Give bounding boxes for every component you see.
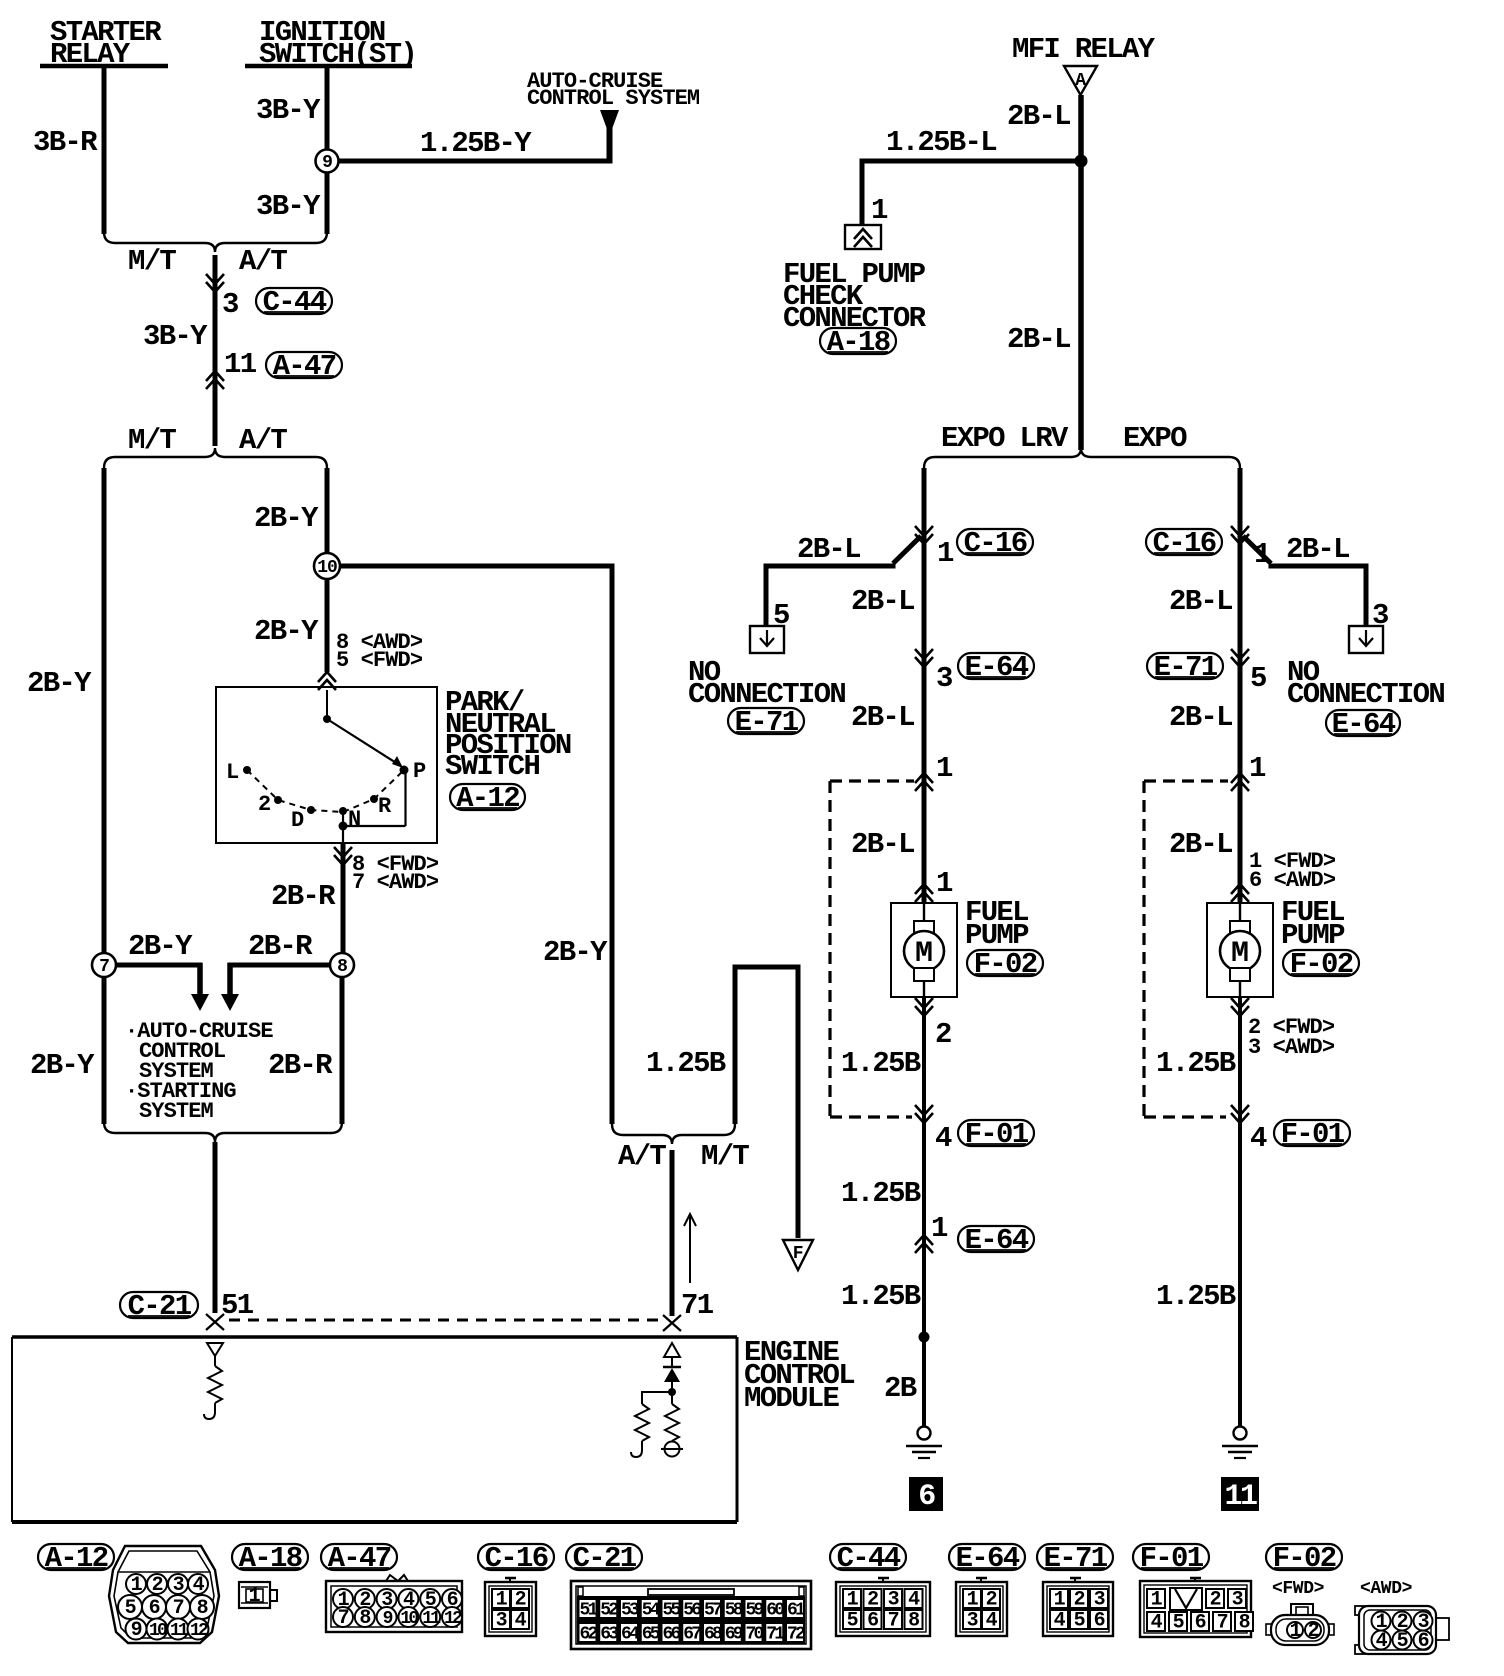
wire 2B-L no-connection stub (left)	[766, 533, 921, 626]
pins 2(FWD) 3(AWD) of F-02 (right)	[1231, 998, 1335, 1060]
svg-text:M/T: M/T	[701, 1140, 749, 1173]
svg-text:1.25B-L: 1.25B-L	[886, 126, 996, 159]
pin 51	[206, 1289, 254, 1330]
svg-text:F-02: F-02	[1273, 1542, 1336, 1575]
svg-text:65: 65	[642, 1625, 660, 1645]
label M/T A/T (lower)	[128, 424, 287, 457]
wire to ECM pin 51	[213, 1142, 218, 1313]
resistor left leg (ECM)	[631, 1391, 672, 1457]
node junction under pin 71	[668, 1388, 676, 1396]
connector F-01 detail	[1140, 1578, 1253, 1637]
connector E-64 detail	[956, 1578, 1007, 1636]
svg-text:8: 8	[908, 1610, 919, 1633]
wire 2B-Y to ECM-71 branch	[340, 564, 615, 1124]
svg-text:F: F	[793, 1244, 803, 1264]
label EXPO LRV / EXPO	[941, 422, 1187, 455]
junction 10	[314, 553, 340, 579]
svg-text:CONNECTION: CONNECTION	[1287, 678, 1444, 711]
wire 2B-Y left M/T branch	[27, 468, 104, 953]
svg-text:60: 60	[766, 1601, 784, 1621]
pin 3 of E-64 (left)	[915, 649, 952, 695]
brace M/T-A/T join (top)	[104, 232, 327, 252]
svg-text:4: 4	[1376, 1630, 1388, 1653]
ground (right)	[1222, 1427, 1258, 1459]
connector label F-02 (left)	[967, 948, 1043, 981]
no-connection terminal E-64 (right)	[1349, 626, 1383, 653]
svg-text:67: 67	[683, 1625, 701, 1645]
svg-text:1: 1	[936, 867, 953, 900]
connector label A-12 (legend)	[38, 1542, 114, 1575]
connector label E-71 (left NC)	[728, 706, 804, 739]
svg-text:3: 3	[173, 1574, 184, 1597]
svg-text:1: 1	[931, 1212, 948, 1245]
svg-text:2: 2	[1210, 1589, 1221, 1612]
svg-text:58: 58	[725, 1601, 743, 1621]
svg-text:E-64: E-64	[956, 1542, 1020, 1575]
connector label E-64 (legend)	[949, 1542, 1025, 1575]
svg-text:A/T: A/T	[239, 245, 287, 278]
wire 1.25B label (left mid)	[841, 1177, 921, 1210]
wire 2B-Y lower left	[30, 977, 104, 1124]
connector label A-18	[820, 326, 896, 359]
svg-text:5 <FWD>: 5 <FWD>	[336, 648, 423, 673]
wire 2B-Y into switch	[254, 579, 327, 672]
svg-text:3: 3	[1094, 1589, 1105, 1612]
wire 2B-L mid (left)	[851, 701, 914, 734]
wire 2B-L into pump (left)	[851, 828, 914, 861]
connector label A-47 (legend)	[321, 1542, 397, 1575]
connector C-21 detail	[571, 1581, 811, 1649]
svg-text:A-18: A-18	[827, 326, 890, 359]
svg-text:3: 3	[1232, 1589, 1243, 1612]
svg-text:A-12: A-12	[456, 782, 519, 815]
svg-text:7: 7	[99, 957, 109, 977]
svg-text:1: 1	[1249, 752, 1266, 785]
pins 1(FWD) 6(AWD) of F-02 (right)	[1231, 849, 1336, 902]
svg-text:10: 10	[400, 1609, 418, 1629]
svg-text:11: 11	[1224, 1480, 1257, 1514]
svg-text:6: 6	[149, 1597, 160, 1620]
svg-text:E-64: E-64	[965, 651, 1029, 684]
pin 5 no-connection (left)	[773, 599, 789, 632]
svg-text:2B-R: 2B-R	[268, 1049, 333, 1082]
svg-text:71: 71	[681, 1289, 714, 1322]
pin 71	[663, 1289, 714, 1331]
svg-text:2: 2	[986, 1589, 997, 1612]
svg-text:1: 1	[871, 194, 888, 227]
connector label A-12 (switch)	[450, 782, 525, 815]
wire 1.25B-Y to auto-cruise	[339, 126, 612, 164]
svg-text:M: M	[915, 937, 933, 971]
wire 3B-Y ignition upper	[256, 66, 327, 150]
pins 8(AWD) 5(FWD) of A-12	[318, 630, 423, 690]
svg-text:F-01: F-01	[1281, 1118, 1345, 1151]
svg-text:2B-L: 2B-L	[851, 828, 914, 861]
svg-text:2B-Y: 2B-Y	[254, 615, 319, 648]
connector label C-16 (left)	[957, 527, 1033, 560]
svg-text:7: 7	[338, 1607, 349, 1630]
off-page connector F	[783, 1240, 813, 1270]
wire 3B-Y ignition lower	[256, 172, 327, 234]
engine control module box	[12, 1337, 737, 1522]
pin 1 of E-64 ground side (left)	[915, 1212, 948, 1253]
arrow into auto-cruise/starting (left)	[191, 994, 209, 1011]
svg-text:A-18: A-18	[239, 1542, 302, 1575]
svg-text:8: 8	[197, 1597, 208, 1620]
svg-text:11: 11	[224, 348, 257, 381]
svg-text:2B-Y: 2B-Y	[128, 930, 193, 963]
svg-text:2B-L: 2B-L	[1286, 533, 1349, 566]
svg-text:A: A	[1075, 71, 1086, 91]
svg-text:E-71: E-71	[1044, 1542, 1108, 1575]
svg-text:5: 5	[1074, 1610, 1085, 1633]
wire 1.25B below pump (right)	[1156, 997, 1240, 1426]
wire 3B-R from starter relay	[33, 66, 104, 234]
wire 1.25B label (left low)	[841, 1280, 921, 1313]
svg-text:2B-L: 2B-L	[851, 701, 914, 734]
connector label C-21 (legend)	[566, 1542, 642, 1575]
svg-text:1: 1	[1290, 1620, 1302, 1643]
svg-text:7: 7	[888, 1610, 899, 1633]
connector A-18 detail	[239, 1582, 277, 1608]
connector label F-01 (left)	[958, 1118, 1034, 1151]
ground (left)	[906, 1427, 942, 1459]
svg-text:6: 6	[1195, 1612, 1206, 1635]
svg-text:6: 6	[1094, 1610, 1105, 1633]
svg-text:4: 4	[1250, 1122, 1267, 1155]
svg-text:4: 4	[1054, 1610, 1066, 1633]
MFI relay	[1012, 33, 1156, 95]
label FUEL PUMP (right)	[1281, 896, 1345, 952]
flow arrow up	[684, 1214, 696, 1283]
svg-text:2: 2	[1074, 1589, 1085, 1612]
wire to ECM pin 71	[670, 1150, 675, 1316]
connector E-71 detail	[1043, 1578, 1113, 1636]
svg-text:5: 5	[847, 1610, 858, 1633]
svg-text:4: 4	[986, 1610, 998, 1633]
wire 2B-Y A/T branch upper	[254, 468, 327, 553]
no-connection terminal E-71 (left)	[750, 626, 784, 653]
dashed boundary F-02 (left)	[830, 781, 914, 1117]
pin 1 of F-02 (left)	[915, 867, 953, 902]
label AWD (legend)	[1360, 1579, 1412, 1599]
connector label F-02 (right)	[1283, 948, 1359, 981]
svg-text:63: 63	[600, 1625, 618, 1645]
svg-text:E-64: E-64	[1332, 708, 1396, 741]
svg-text:3B-R: 3B-R	[33, 126, 98, 159]
svg-text:2B-L: 2B-L	[851, 585, 914, 618]
label PARK/NEUTRAL POSITION SWITCH	[445, 686, 571, 783]
svg-text:C-44: C-44	[263, 286, 327, 319]
svg-text:1.25B: 1.25B	[1156, 1280, 1236, 1313]
brace A/T-M/T split into pin 71	[612, 1124, 735, 1144]
ground reference 11	[1221, 1477, 1259, 1514]
svg-text:12: 12	[190, 1621, 208, 1641]
svg-text:3: 3	[967, 1610, 978, 1633]
svg-text:1.25B: 1.25B	[646, 1047, 726, 1080]
svg-text:7: 7	[173, 1597, 184, 1620]
svg-text:EXPO LRV: EXPO LRV	[941, 422, 1069, 455]
pin 1 fuel pump check connector	[871, 194, 888, 227]
svg-text:M: M	[1231, 937, 1249, 971]
svg-text:3B-Y: 3B-Y	[256, 94, 321, 127]
wire 2B-L expo upper	[1238, 468, 1243, 903]
pin 1 of C-16 (right)	[1231, 526, 1271, 571]
connector pin 11 of A-47	[206, 348, 257, 389]
connector F-02 AWD detail	[1355, 1606, 1449, 1654]
svg-text:10: 10	[149, 1621, 167, 1641]
pin 4 of F-01 (left)	[915, 1105, 952, 1155]
svg-text:57: 57	[704, 1601, 722, 1621]
brace M/T-A/T split (second)	[104, 448, 327, 468]
svg-text:2B-Y: 2B-Y	[30, 1049, 95, 1082]
label NO CONNECTION (left)	[688, 656, 845, 711]
svg-text:5: 5	[125, 1597, 136, 1620]
svg-text:2: 2	[867, 1589, 878, 1612]
connector label C-21 (ECM)	[120, 1290, 198, 1323]
wire 2B-R branch from junction 8	[228, 930, 331, 996]
arrow to auto-cruise control system	[600, 110, 619, 129]
wire 2B-L no-connection stub (right)	[1169, 533, 1366, 626]
arrow into auto-cruise/starting (right)	[221, 994, 239, 1011]
svg-text:2B-Y: 2B-Y	[254, 502, 319, 535]
svg-text:SWITCH: SWITCH	[445, 750, 540, 783]
svg-text:3B-Y: 3B-Y	[143, 320, 208, 353]
connector label C-16 (right)	[1146, 527, 1222, 560]
svg-text:A-12: A-12	[45, 1542, 108, 1575]
ground reference 6	[909, 1477, 943, 1514]
connector C-16 detail	[485, 1578, 536, 1636]
pin 5 of E-71 (right)	[1231, 649, 1266, 695]
svg-text:12: 12	[444, 1609, 462, 1629]
svg-text:72: 72	[787, 1625, 805, 1645]
svg-text:59: 59	[745, 1601, 763, 1621]
svg-text:3B-Y: 3B-Y	[256, 190, 321, 223]
label M/T A/T (upper)	[128, 245, 287, 278]
svg-text:6: 6	[1418, 1630, 1429, 1653]
svg-text:1: 1	[936, 752, 953, 785]
ECM output under pin 71	[664, 1343, 680, 1366]
connector label E-64 (left lower)	[958, 1224, 1034, 1257]
connector label C-44	[256, 286, 332, 319]
svg-text:3: 3	[936, 662, 952, 695]
svg-text:4: 4	[1151, 1612, 1163, 1635]
svg-text:6 <AWD>: 6 <AWD>	[1249, 868, 1336, 893]
junction dot 2B (left)	[919, 1332, 930, 1343]
svg-text:A-47: A-47	[328, 1542, 391, 1575]
svg-text:2: 2	[515, 1589, 526, 1612]
label FWD (legend)	[1272, 1579, 1324, 1599]
label ENGINE CONTROL MODULE	[744, 1336, 854, 1415]
connector label E-71 (legend)	[1037, 1542, 1113, 1575]
svg-text:F-01: F-01	[1140, 1542, 1204, 1575]
svg-text:M/T: M/T	[128, 245, 176, 278]
svg-text:3: 3	[496, 1610, 507, 1633]
svg-text:F-02: F-02	[974, 948, 1037, 981]
svg-text:69: 69	[725, 1625, 743, 1645]
svg-text:A/T: A/T	[618, 1140, 666, 1173]
svg-text:1: 1	[967, 1589, 979, 1612]
connector label A-18 (legend)	[232, 1542, 308, 1575]
svg-text:3 <AWD>: 3 <AWD>	[1248, 1035, 1335, 1060]
svg-text:53: 53	[621, 1601, 639, 1621]
svg-text:2B-L: 2B-L	[1169, 828, 1232, 861]
pin 1 into dashed boundary (left)	[915, 752, 953, 791]
svg-text:2B-L: 2B-L	[1169, 701, 1232, 734]
wire 2B-L into pump (right)	[1169, 828, 1232, 861]
svg-text:8: 8	[359, 1607, 370, 1630]
brace EXPO split	[924, 448, 1240, 468]
svg-text:<AWD>: <AWD>	[1360, 1579, 1412, 1599]
connector label F-02 (legend)	[1266, 1542, 1342, 1575]
svg-text:1.25B: 1.25B	[841, 1280, 921, 1313]
svg-text:L: L	[226, 760, 239, 785]
label A/T M/T (ECM)	[618, 1140, 749, 1173]
pin 4 of F-01 (right)	[1231, 1105, 1267, 1155]
svg-text:E-71: E-71	[1154, 651, 1218, 684]
svg-text:F-01: F-01	[965, 1118, 1029, 1151]
svg-text:<FWD>: <FWD>	[1272, 1579, 1324, 1599]
wire 2B-L mid (right)	[1169, 701, 1232, 734]
svg-text:1: 1	[496, 1589, 508, 1612]
connector label E-64 (left)	[958, 651, 1034, 684]
svg-text:2: 2	[152, 1574, 163, 1597]
wire 2B-L from MFI relay	[1007, 95, 1081, 450]
svg-text:D: D	[291, 808, 304, 833]
svg-text:2: 2	[258, 792, 270, 817]
svg-text:E-71: E-71	[735, 706, 799, 739]
svg-text:2B-L: 2B-L	[1007, 100, 1070, 133]
svg-text:68: 68	[704, 1625, 722, 1645]
label FUEL PUMP CHECK CONNECTOR	[783, 258, 927, 335]
svg-text:5: 5	[1173, 1612, 1184, 1635]
svg-text:2B-L: 2B-L	[797, 533, 860, 566]
svg-text:2B-Y: 2B-Y	[27, 667, 92, 700]
connector label A-47	[266, 350, 342, 383]
svg-text:SYSTEM: SYSTEM	[139, 1099, 214, 1124]
svg-text:4: 4	[908, 1589, 920, 1612]
connector label F-01 (right)	[1274, 1118, 1350, 1151]
svg-text:C-21: C-21	[128, 1290, 192, 1323]
svg-text:8: 8	[1239, 1612, 1250, 1635]
connector label C-16 (legend)	[478, 1542, 554, 1575]
svg-text:1: 1	[131, 1574, 143, 1597]
fuel pump F-02 (left)	[891, 888, 957, 1003]
svg-text:1.25B: 1.25B	[1156, 1047, 1236, 1080]
connector label F-01 (legend)	[1133, 1542, 1209, 1575]
fuel pump check connector A-18	[845, 225, 881, 249]
svg-text:CONTROL SYSTEM: CONTROL SYSTEM	[527, 86, 700, 111]
connector pin 3 of C-44	[206, 274, 238, 321]
svg-text:3: 3	[888, 1589, 899, 1612]
svg-text:R: R	[378, 794, 392, 819]
svg-text:1: 1	[1054, 1589, 1066, 1612]
svg-text:A-47: A-47	[273, 350, 336, 383]
diode under pin 71	[663, 1367, 681, 1392]
junction 7	[92, 953, 116, 977]
label NO CONNECTION (right)	[1287, 656, 1444, 711]
svg-text:6: 6	[918, 1480, 935, 1514]
wire 2B-Y branch from junction 7	[116, 930, 203, 996]
park/neutral position switch A-12	[216, 687, 437, 843]
svg-text:3: 3	[222, 288, 238, 321]
svg-text:1: 1	[847, 1589, 859, 1612]
junction 8	[330, 953, 354, 977]
svg-text:P: P	[413, 759, 426, 784]
pin 2 of F-02 (left)	[915, 998, 951, 1051]
svg-text:2B-L: 2B-L	[1169, 585, 1232, 618]
junction dot MFI branch	[1075, 155, 1088, 168]
svg-text:C-21: C-21	[573, 1542, 637, 1575]
label auto-cruise control system / starting system	[125, 1019, 273, 1124]
svg-text:M/T: M/T	[128, 424, 176, 457]
wire 1.25B label (right low)	[1156, 1280, 1236, 1313]
svg-text:7 <AWD>: 7 <AWD>	[352, 870, 439, 895]
wire 2B label	[884, 1372, 917, 1405]
dashed link pin51-pin71	[229, 1319, 666, 1322]
brace join into ECM pin 51	[104, 1122, 342, 1142]
component IGNITION SWITCH (ST)	[245, 16, 416, 71]
wire 2B-R lower	[268, 977, 342, 1124]
svg-text:66: 66	[662, 1625, 680, 1645]
svg-text:1.25B-Y: 1.25B-Y	[420, 127, 532, 160]
svg-text:5: 5	[1250, 662, 1266, 695]
resistor under pin 51	[204, 1366, 222, 1419]
connector C-44 detail	[836, 1578, 930, 1636]
svg-text:C-16: C-16	[485, 1542, 548, 1575]
svg-text:56: 56	[683, 1601, 701, 1621]
svg-text:4: 4	[935, 1122, 952, 1155]
svg-text:8: 8	[337, 957, 347, 977]
svg-text:51: 51	[221, 1289, 254, 1322]
svg-text:N: N	[348, 807, 360, 832]
svg-text:C-44: C-44	[837, 1542, 901, 1575]
connector A-12 detail	[109, 1546, 219, 1643]
svg-text:7: 7	[1217, 1612, 1228, 1635]
ECM input under pin 51	[207, 1343, 223, 1366]
svg-text:52: 52	[600, 1601, 618, 1621]
pin 1 of C-16 (left)	[915, 526, 954, 570]
svg-text:62: 62	[579, 1625, 597, 1645]
label AUTO-CRUISE CONTROL SYSTEM	[527, 69, 700, 111]
svg-text:9: 9	[322, 153, 332, 173]
svg-text:1: 1	[937, 537, 954, 570]
svg-text:2B-Y: 2B-Y	[543, 936, 608, 969]
svg-text:1.25B: 1.25B	[841, 1177, 921, 1210]
component STARTER RELAY	[40, 16, 168, 71]
svg-text:C-16: C-16	[1153, 527, 1216, 560]
connector label E-71 (right)	[1147, 651, 1223, 684]
svg-text:2B-L: 2B-L	[1007, 323, 1070, 356]
wire 2B-L expo-lrv upper	[922, 468, 927, 903]
wire 1.25B M/T branch	[646, 965, 801, 1239]
svg-text:9: 9	[131, 1619, 142, 1642]
svg-text:2: 2	[935, 1018, 951, 1051]
svg-text:A/T: A/T	[239, 424, 287, 457]
wire 1.25B-L to check connector	[860, 126, 1082, 225]
pins 8(FWD) 7(AWD) of A-12	[334, 847, 439, 895]
svg-text:EXPO: EXPO	[1123, 422, 1187, 455]
svg-text:55: 55	[662, 1601, 680, 1621]
svg-text:2B-R: 2B-R	[248, 930, 313, 963]
svg-text:10: 10	[317, 558, 337, 578]
svg-text:1.25B: 1.25B	[841, 1047, 921, 1080]
svg-text:1: 1	[1151, 1589, 1163, 1612]
svg-text:5: 5	[1397, 1630, 1408, 1653]
svg-text:2: 2	[1308, 1620, 1319, 1643]
resistor right leg with terminal (ECM)	[661, 1392, 683, 1457]
svg-text:2B: 2B	[884, 1372, 917, 1405]
